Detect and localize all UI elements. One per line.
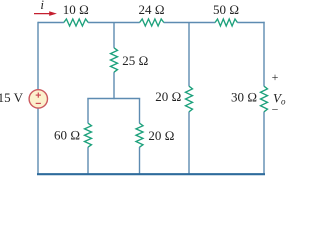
svg-text:50 Ω: 50 Ω xyxy=(213,2,239,17)
wire 60Ω branch lower xyxy=(87,147,89,174)
wire top horizontal: 24Ω to 50Ω through node B xyxy=(164,22,216,24)
resistor 20Ω bottom xyxy=(136,123,143,147)
resistor 24Ω xyxy=(140,19,164,26)
svg-text:−: − xyxy=(272,103,279,117)
wire 20Ω middle branch upper xyxy=(188,23,190,87)
svg-text:15 V: 15 V xyxy=(0,90,24,105)
svg-text:25 Ω: 25 Ω xyxy=(122,53,148,68)
resistor 60Ω xyxy=(85,123,92,147)
resistor 30Ω xyxy=(261,86,268,112)
wire 20Ω middle branch lower xyxy=(188,112,190,175)
wire top horizontal: 50Ω to right corner xyxy=(237,22,264,24)
resistor 10Ω xyxy=(64,19,88,26)
svg-text:20 Ω: 20 Ω xyxy=(148,128,174,143)
voltage source 15V xyxy=(29,90,47,108)
svg-text:30 Ω: 30 Ω xyxy=(231,89,257,104)
svg-text:+: + xyxy=(272,70,279,84)
wire 25Ω branch lower xyxy=(113,72,115,99)
svg-text:60 Ω: 60 Ω xyxy=(54,127,80,142)
svg-text:20 Ω: 20 Ω xyxy=(155,89,181,104)
resistor 25Ω xyxy=(111,48,118,72)
wire right vertical upper xyxy=(263,22,265,87)
wire 25Ω branch upper xyxy=(113,23,115,48)
wire top horizontal: 10Ω to 24Ω through node A xyxy=(88,22,140,24)
svg-text:i: i xyxy=(40,0,44,12)
resistor 20Ω middle xyxy=(186,86,193,112)
wire left vertical through 15V source xyxy=(37,22,39,174)
svg-text:10 Ω: 10 Ω xyxy=(63,2,89,17)
wire 20Ω bottom branch upper xyxy=(139,99,141,124)
wire 60Ω branch upper xyxy=(87,99,89,124)
wire 20Ω bottom branch lower xyxy=(139,147,141,174)
current arrow i xyxy=(34,11,57,16)
resistor 50Ω xyxy=(215,19,237,26)
wire bottom horizontal (bold) xyxy=(37,173,265,175)
wire top horizontal: source corner to 10Ω xyxy=(38,22,64,24)
svg-text:24 Ω: 24 Ω xyxy=(138,2,164,17)
wire middle horizontal xyxy=(87,98,140,100)
wire right vertical lower xyxy=(263,112,265,175)
